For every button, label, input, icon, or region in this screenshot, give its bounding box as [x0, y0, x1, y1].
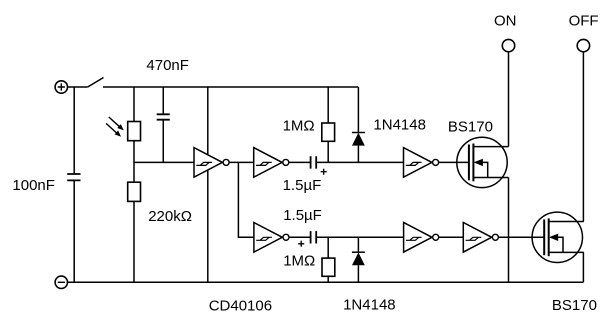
svg-text:470nF: 470nF [146, 57, 189, 74]
svg-text:ON: ON [494, 13, 517, 30]
svg-text:OFF: OFF [569, 13, 599, 30]
svg-text:220kΩ: 220kΩ [148, 208, 192, 225]
svg-text:CD40106: CD40106 [209, 297, 272, 314]
svg-text:1.5µF: 1.5µF [283, 177, 322, 194]
svg-text:1MΩ: 1MΩ [283, 117, 315, 134]
svg-text:1N4148: 1N4148 [373, 116, 426, 133]
svg-text:BS170: BS170 [552, 297, 597, 314]
svg-text:1N4148: 1N4148 [343, 297, 396, 314]
svg-text:100nF: 100nF [12, 177, 55, 194]
svg-text:1.5µF: 1.5µF [283, 207, 322, 224]
svg-text:1MΩ: 1MΩ [283, 252, 315, 269]
svg-text:BS170: BS170 [448, 119, 493, 136]
